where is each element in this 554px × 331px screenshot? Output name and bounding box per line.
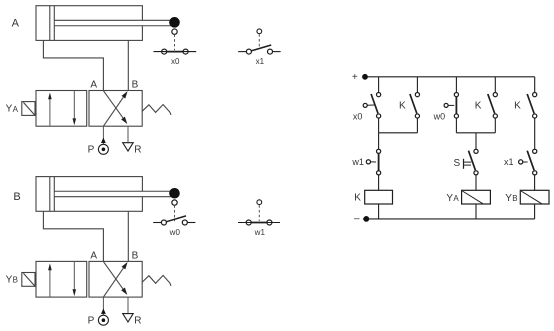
wire cylinder B left port to valve port A bbox=[43, 211, 103, 261]
contact K1 (NO, open) bbox=[410, 93, 420, 119]
solenoid coil YA bbox=[462, 190, 491, 204]
limit switch w1 actuator circle bbox=[257, 200, 262, 205]
svg-text:w1: w1 bbox=[254, 228, 266, 237]
valve V1 return spring bbox=[142, 105, 171, 115]
limit switch w1 contact (closed) bbox=[238, 220, 280, 225]
valve V1 right position box bbox=[89, 91, 142, 127]
valve V2 pressure port P symbol bbox=[98, 297, 108, 325]
valve V1 port label A bbox=[90, 80, 97, 91]
cylinder B body bbox=[36, 177, 142, 212]
wire from plus rail bbox=[455, 77, 457, 93]
plus terminal dot bbox=[363, 74, 368, 79]
valve V1 pressure port P symbol bbox=[98, 126, 108, 154]
limit switch x1 actuation dashed line bbox=[258, 34, 260, 48]
svg-text:B: B bbox=[13, 276, 18, 285]
svg-text:R: R bbox=[134, 316, 141, 327]
limit switch actuator circle V2 bbox=[172, 200, 177, 205]
valve V1 up-flow arrow bbox=[48, 93, 52, 127]
valve V2 down-flow arrow bbox=[73, 261, 77, 296]
contact x1 label bbox=[504, 157, 514, 167]
valve V1 P label bbox=[88, 145, 95, 156]
minus label bbox=[354, 214, 360, 225]
minus supply rail bbox=[363, 218, 535, 220]
wire cylinder A right port to valve port B bbox=[127, 40, 129, 90]
svg-text:P: P bbox=[88, 145, 95, 156]
cylinder B label bbox=[13, 191, 20, 203]
wire K2 branch down bbox=[494, 118, 496, 133]
limit switch x1 label bbox=[256, 57, 265, 66]
wire S to coil YA bbox=[475, 175, 477, 190]
contact x0 (NO, open) bbox=[371, 93, 381, 119]
solenoid Y label bbox=[6, 104, 19, 115]
wire w0 branch down bbox=[455, 118, 457, 133]
svg-text:x1: x1 bbox=[504, 157, 514, 167]
contact K1 label bbox=[399, 101, 406, 112]
cylinder A piston rod bbox=[54, 20, 171, 25]
valve V1 cross arrow A to R bbox=[103, 91, 127, 124]
solenoid Y box bbox=[22, 273, 35, 287]
contact S label bbox=[454, 158, 461, 169]
solenoid Y box bbox=[22, 102, 35, 116]
svg-text:+: + bbox=[352, 72, 358, 83]
valve V1 port label B bbox=[132, 80, 139, 91]
contact x0 actuator circle and link bbox=[363, 103, 374, 107]
limit switch x1 actuator circle bbox=[257, 29, 262, 34]
wire from plus rail bbox=[534, 77, 536, 93]
wire cylinder A left port to valve port A bbox=[43, 40, 103, 90]
wire to w1 contact bbox=[378, 133, 380, 149]
wire coil YA to minus rail bbox=[475, 204, 477, 219]
limit switch x0 label bbox=[171, 57, 180, 66]
valve V2 right position box bbox=[89, 261, 142, 297]
wire to S contact bbox=[475, 133, 477, 149]
contact x0 label bbox=[353, 112, 363, 122]
valve V1 down-flow arrow bbox=[73, 91, 77, 126]
svg-text:A: A bbox=[12, 18, 20, 30]
junction bar x0 K1 bbox=[379, 132, 418, 134]
junction bar w0 K2 bbox=[456, 132, 495, 134]
svg-text:K: K bbox=[354, 193, 361, 204]
contact w1 label bbox=[351, 157, 364, 167]
valve V1 cross arrow P to B bbox=[103, 91, 127, 126]
svg-text:K: K bbox=[475, 101, 482, 112]
contact w0 (closed) bbox=[454, 93, 458, 119]
cylinder A body bbox=[36, 6, 142, 41]
limit switch actuator circle V1 bbox=[172, 29, 177, 34]
contact x1el (NO, open) bbox=[527, 149, 537, 175]
cylinder A label bbox=[12, 18, 20, 30]
svg-text:B: B bbox=[132, 251, 139, 262]
svg-text:w1: w1 bbox=[351, 157, 364, 167]
contact K3 label bbox=[514, 101, 521, 112]
valve V2 R label bbox=[134, 316, 141, 327]
limit switch x0 contact (closed) bbox=[154, 49, 197, 54]
solenoid coil YB bbox=[520, 190, 549, 204]
svg-text:A: A bbox=[90, 251, 97, 262]
contact x1 actuator circle and link bbox=[519, 160, 528, 164]
svg-text:Y: Y bbox=[505, 193, 512, 204]
svg-text:B: B bbox=[132, 80, 139, 91]
contact K2 (NO, open) bbox=[488, 93, 498, 119]
svg-text:Y: Y bbox=[6, 104, 13, 115]
cylinder B piston bbox=[50, 177, 55, 212]
valve V2 return spring bbox=[142, 275, 171, 285]
wire from plus rail bbox=[494, 77, 496, 93]
valve V2 cross arrow P to B bbox=[103, 262, 127, 297]
plus supply rail bbox=[363, 76, 535, 78]
wire x0 branch down bbox=[378, 118, 380, 133]
rod end roller dot V1 bbox=[170, 18, 180, 28]
contact w1 (closed) bbox=[377, 149, 381, 175]
valve V1 R label bbox=[134, 145, 141, 156]
contact w1 actuator circle and link bbox=[366, 160, 376, 164]
wire K1 branch down bbox=[416, 118, 418, 133]
wire x1 to coil YB bbox=[534, 175, 536, 190]
rod end roller dot V2 bbox=[170, 188, 180, 198]
svg-text:x0: x0 bbox=[353, 112, 363, 122]
valve V2 left position box bbox=[36, 261, 87, 297]
dashed actuation link V2 bbox=[174, 205, 176, 221]
svg-text:B: B bbox=[13, 191, 20, 203]
valve V2 up-flow arrow bbox=[48, 263, 52, 297]
wire from plus rail bbox=[416, 77, 418, 93]
svg-text:x1: x1 bbox=[256, 57, 265, 66]
wire K3 branch down bbox=[534, 118, 536, 149]
valve V2 P label bbox=[88, 316, 95, 327]
contact w0 actuator circle and link bbox=[444, 103, 454, 107]
contact S pushbutton actuator bbox=[464, 159, 472, 169]
svg-text:A: A bbox=[13, 105, 19, 114]
valve V2 cross arrow A to R bbox=[103, 262, 127, 295]
svg-text:S: S bbox=[454, 158, 461, 169]
limit switch w1 label bbox=[254, 228, 266, 237]
minus terminal dot bbox=[364, 217, 369, 222]
dashed actuation link V1 bbox=[174, 34, 176, 50]
svg-text:A: A bbox=[453, 194, 459, 203]
plus label bbox=[352, 72, 358, 83]
cylinder A piston bbox=[50, 6, 55, 41]
svg-text:Y: Y bbox=[446, 193, 453, 204]
svg-text:–: – bbox=[354, 214, 360, 225]
solenoid coil YB label bbox=[505, 193, 517, 204]
contact K2 label bbox=[475, 101, 482, 112]
limit switch w0 label bbox=[169, 228, 181, 237]
svg-text:K: K bbox=[514, 101, 521, 112]
wire w1 to coil K bbox=[378, 175, 380, 190]
svg-text:P: P bbox=[88, 316, 95, 327]
wire coil YB to minus rail bbox=[534, 204, 536, 219]
limit switch w1 actuation dashed line bbox=[258, 205, 260, 221]
wire coil K to minus rail bbox=[378, 204, 380, 219]
svg-text:w0: w0 bbox=[433, 112, 446, 122]
svg-text:B: B bbox=[512, 194, 517, 203]
solenoid Y label bbox=[6, 275, 18, 286]
svg-text:K: K bbox=[399, 101, 406, 112]
valve V2 exhaust port R symbol bbox=[123, 297, 134, 322]
svg-text:Y: Y bbox=[6, 275, 13, 286]
svg-text:A: A bbox=[90, 80, 97, 91]
limit switch w0 contact (open) bbox=[153, 216, 195, 225]
contact S (NO, open) bbox=[469, 149, 479, 175]
contact K3 (NO, open) bbox=[527, 93, 537, 119]
relay coil K bbox=[365, 190, 393, 204]
svg-text:w0: w0 bbox=[169, 228, 181, 237]
valve V1 exhaust port R symbol bbox=[123, 126, 134, 151]
valve V2 port label B bbox=[132, 251, 139, 262]
wire cylinder B right port to valve port B bbox=[127, 211, 129, 261]
svg-text:x0: x0 bbox=[171, 57, 180, 66]
relay coil K label bbox=[354, 193, 361, 204]
wire from plus rail bbox=[378, 77, 380, 93]
valve V1 left position box bbox=[36, 91, 87, 127]
svg-text:R: R bbox=[134, 145, 141, 156]
contact w0 label bbox=[433, 112, 446, 122]
limit switch x1 contact (open) bbox=[238, 45, 280, 54]
valve V2 port label A bbox=[90, 251, 97, 262]
solenoid coil YA label bbox=[446, 193, 459, 204]
cylinder B piston rod bbox=[54, 191, 171, 196]
